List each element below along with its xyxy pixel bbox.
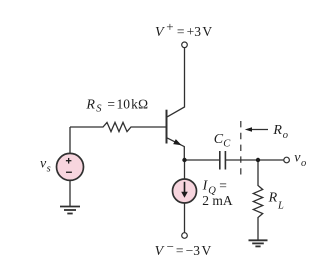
svg-text:−: − xyxy=(167,239,174,254)
svg-text:=: = xyxy=(176,243,184,258)
svg-text:R: R xyxy=(85,98,95,113)
svg-text:+3: +3 xyxy=(187,24,202,39)
svg-text:2 mA: 2 mA xyxy=(202,193,233,208)
svg-text:R: R xyxy=(272,123,282,138)
svg-text:+: + xyxy=(166,19,173,34)
svg-text:s: s xyxy=(47,163,51,174)
svg-text:V: V xyxy=(155,244,165,259)
svg-text:o: o xyxy=(301,158,306,169)
svg-text:S: S xyxy=(96,104,102,115)
svg-text:L: L xyxy=(277,200,284,211)
svg-text:=: = xyxy=(107,97,115,112)
svg-text:10: 10 xyxy=(117,97,131,112)
svg-text:V: V xyxy=(202,24,212,39)
svg-text:o: o xyxy=(283,130,288,141)
svg-text:V: V xyxy=(155,25,165,40)
svg-text:−3: −3 xyxy=(186,243,201,258)
svg-text:C: C xyxy=(223,138,231,149)
svg-text:kΩ: kΩ xyxy=(131,97,148,112)
svg-text:V: V xyxy=(202,243,212,258)
svg-text:R: R xyxy=(268,191,278,206)
svg-text:=: = xyxy=(177,24,185,39)
svg-text:=: = xyxy=(219,178,227,193)
